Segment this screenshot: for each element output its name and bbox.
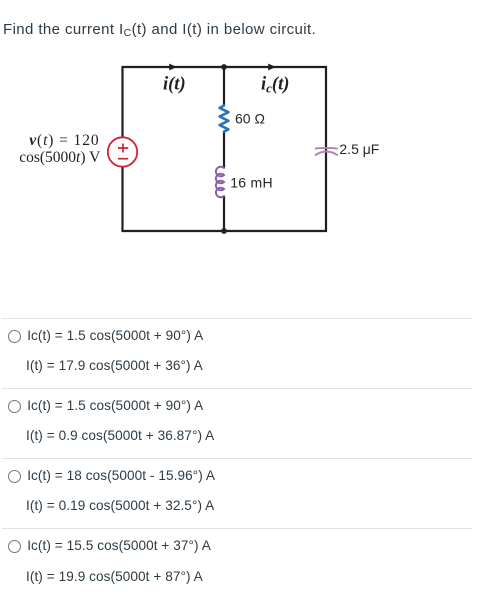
arrow for current i(t) (169, 64, 177, 71)
option C line 1 (27, 469, 215, 483)
option A line 2 (26, 359, 203, 373)
capacitor C 2.5uF bottom plate (315, 152, 338, 156)
option A divider (2, 318, 472, 319)
circuit schematic (0, 0, 479, 280)
voltage source minus sign (118, 158, 128, 160)
option B radio (8, 400, 21, 413)
svg-text:60 Ω: 60 Ω (235, 111, 265, 127)
node: top junction dot (221, 64, 227, 70)
option D radio (8, 540, 21, 553)
wire: outer loop (left, top, right, bottom) (123, 67, 327, 231)
inductor L 16mH coil (216, 167, 224, 198)
option A line 1 (27, 329, 203, 343)
arrow for current ic(t) (268, 64, 276, 71)
option D divider (2, 528, 472, 529)
svg-text:cos(5000t) V: cos(5000t) V (19, 149, 101, 166)
node: bottom junction dot (221, 228, 227, 234)
voltage source plus sign (118, 144, 128, 153)
svg-text:16 mH: 16 mH (230, 174, 273, 190)
option A radio (8, 330, 21, 343)
capacitor C 2.5uF top plate (315, 147, 338, 150)
svg-text:2.5 μF: 2.5 μF (339, 141, 379, 157)
option C divider (2, 458, 472, 459)
svg-text:i(t): i(t) (163, 75, 186, 95)
option B line 1 (27, 399, 203, 413)
voltage source VS circle (108, 137, 137, 166)
svg-text:v(t) = 120: v(t) = 120 (29, 132, 99, 149)
resistor R 60ohm zigzag (220, 106, 229, 132)
wire: middle branch lower segment (223, 196, 225, 232)
title (3, 21, 316, 38)
option C radio (8, 470, 21, 483)
wire: middle branch upper segment (223, 67, 225, 106)
wire: middle branch between resistor and inductor (223, 131, 225, 169)
option C line 2 (26, 499, 214, 513)
svg-text:ic(t): ic(t) (261, 75, 289, 96)
option B line 2 (26, 429, 214, 443)
option D line 2 (26, 570, 203, 584)
option B divider (2, 388, 472, 389)
option D line 1 (27, 539, 211, 553)
